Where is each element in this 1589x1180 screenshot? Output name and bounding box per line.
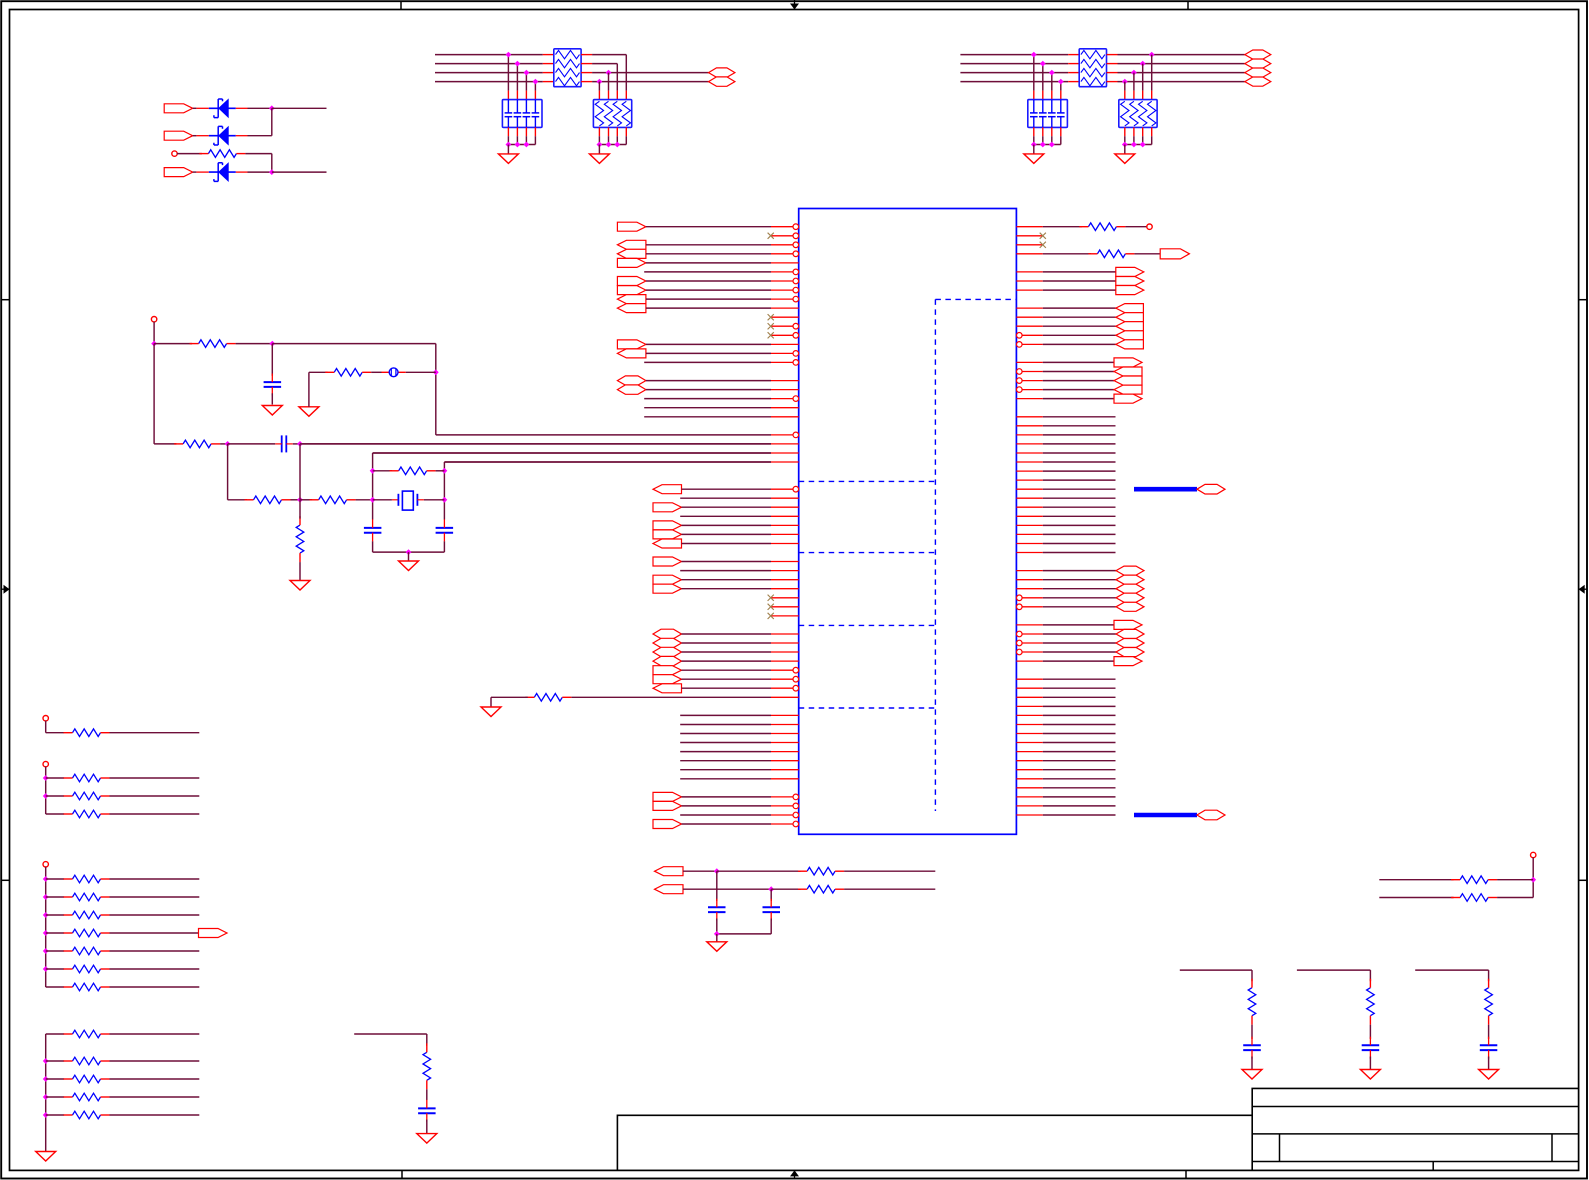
- junction J10: [515, 142, 521, 148]
- wire W183: [683, 888, 771, 890]
- pin R43 of U1: [1017, 604, 1043, 610]
- junction J24: [1040, 142, 1046, 148]
- wire net52b: [491, 696, 528, 698]
- pin L8 of U1: [771, 287, 799, 293]
- no-connect X7: [768, 613, 774, 619]
- wire W47: [680, 778, 771, 780]
- wire W57: [1043, 280, 1116, 282]
- port P57 IN1: [164, 104, 193, 113]
- wire W27: [682, 533, 772, 535]
- ground G1: [481, 707, 501, 717]
- port P60: [709, 68, 735, 77]
- pin R41 of U1: [1016, 588, 1042, 590]
- pin L21 of U1: [771, 407, 799, 409]
- pin R56 of U1: [1016, 724, 1042, 726]
- wire W77: [1043, 488, 1116, 490]
- no-connect X6: [768, 604, 774, 610]
- port P15: [653, 521, 682, 530]
- wire W95: [1043, 678, 1116, 680]
- port P32: [1116, 267, 1144, 276]
- pin L11 of U1: [771, 316, 799, 318]
- ground G6: [262, 406, 282, 416]
- wire W178: [110, 1096, 200, 1098]
- wire W66: [1043, 380, 1114, 382]
- junction J22: [1122, 79, 1128, 85]
- wire c stem2: [271, 393, 273, 404]
- junction J11: [524, 142, 530, 148]
- wire W54: [1043, 253, 1091, 255]
- wire W151: [46, 777, 64, 779]
- port P11: [617, 376, 646, 385]
- resistor R2: [1079, 223, 1125, 231]
- wire W184: [771, 888, 800, 890]
- wire W171: [46, 1033, 64, 1035]
- wire W169: [46, 986, 64, 988]
- wire W83: [1043, 543, 1116, 545]
- resistor R16: [64, 729, 110, 737]
- bus net B2: [1134, 813, 1197, 818]
- IC U1 internal dashed divider a: [799, 480, 936, 482]
- port P62: [1245, 50, 1271, 59]
- pin R1 of U1: [1016, 226, 1042, 228]
- wire W98: [1043, 705, 1116, 707]
- junction J39: [406, 549, 412, 555]
- wire W133: [1118, 72, 1245, 74]
- zone divider bottom left: [401, 1170, 403, 1178]
- wire W16: [644, 407, 771, 409]
- capacitor network CN2: [1028, 100, 1068, 128]
- wire W135: [154, 343, 192, 345]
- pin R4 of U1: [1016, 253, 1042, 255]
- port P47: [1116, 584, 1144, 593]
- pin L49 of U1: [771, 660, 799, 662]
- wire W89: [1043, 606, 1116, 608]
- wire W94: [1043, 660, 1114, 662]
- port P37: [1116, 322, 1144, 331]
- wire cap dn: [507, 136, 509, 144]
- ground G13: [1242, 1070, 1262, 1080]
- wire W7: [646, 289, 771, 291]
- wire W149: [46, 732, 64, 734]
- junction J46: [43, 948, 49, 954]
- wire W125: [592, 72, 708, 74]
- wire res dn: [1151, 136, 1153, 144]
- wire cap tap: [1033, 55, 1035, 91]
- resistor R12: [245, 496, 291, 504]
- wire W152: [110, 777, 200, 779]
- wire W70: [1043, 425, 1116, 427]
- pin R10 of U1: [1016, 307, 1042, 309]
- wire W159: [46, 896, 64, 898]
- wire W58: [1043, 289, 1116, 291]
- title block bottom-centre box: [617, 1115, 1252, 1170]
- wire W39: [682, 687, 772, 689]
- wire rc v2: [1488, 1025, 1490, 1039]
- port P64: [1245, 68, 1271, 77]
- zone divider left lower: [1, 879, 9, 881]
- wire W123: [592, 54, 626, 56]
- wire W96: [1043, 687, 1116, 689]
- wire W10: [646, 343, 771, 345]
- wire res dn: [1124, 136, 1126, 144]
- wire rc v3: [1369, 1057, 1371, 1070]
- wire rc v1: [1369, 970, 1371, 981]
- wire W35: [682, 651, 772, 653]
- wire rc wire: [1180, 969, 1252, 971]
- wire W64: [1043, 361, 1114, 363]
- wire cap tap: [1042, 64, 1044, 91]
- wire tie 3-4: [271, 154, 273, 173]
- wire capA stem2: [716, 919, 718, 934]
- wire W6: [646, 280, 771, 282]
- wire W105: [1043, 769, 1116, 771]
- wire W84: [1043, 552, 1116, 554]
- wire W114: [248, 135, 272, 137]
- junction J16: [1040, 61, 1046, 67]
- crystal Y1: [392, 491, 424, 510]
- wire rc top: [354, 1033, 427, 1035]
- resistor R21: [64, 893, 110, 901]
- junction J40: [43, 775, 49, 781]
- resistor R26: [64, 983, 110, 991]
- junction J4: [515, 61, 521, 67]
- pin L2 of U1: [771, 233, 799, 239]
- wire W30: [680, 570, 771, 572]
- resistor R18: [64, 792, 110, 800]
- IC U1 internal dashed block vertical: [934, 299, 936, 811]
- wire W3: [646, 253, 771, 255]
- wire xtal right vert a: [443, 462, 445, 520]
- port P43: [1114, 385, 1142, 394]
- wire W179: [46, 1114, 64, 1116]
- resistor R1: [525, 694, 571, 702]
- resistor R11: [174, 440, 220, 448]
- pin R3 of U1: [1016, 244, 1042, 246]
- capacitor C3 C pll: [264, 374, 282, 396]
- junction J19: [1149, 52, 1155, 58]
- pin R51 of U1: [1016, 678, 1042, 680]
- ground G8: [290, 581, 310, 591]
- port P35: [1116, 304, 1144, 313]
- wire g4 stem: [45, 1034, 47, 1152]
- junction J49: [43, 1076, 49, 1082]
- pin L61 of U1: [771, 769, 799, 771]
- diode D2 D2: [209, 126, 236, 145]
- no-connect X3: [768, 323, 774, 329]
- pin R24 of U1: [1016, 434, 1042, 436]
- junction J21: [1131, 70, 1137, 76]
- wire W67: [1043, 389, 1114, 391]
- port P51: [1116, 629, 1144, 638]
- junction J25: [1049, 142, 1055, 148]
- wire W59: [1043, 307, 1116, 309]
- wire cap dn: [1042, 136, 1044, 144]
- pin L38 of U1: [771, 561, 799, 563]
- node O3 (open pin): [151, 317, 156, 322]
- ground G2: [498, 154, 518, 164]
- wire res gnd stem: [1124, 145, 1126, 154]
- port P1: [617, 222, 646, 231]
- junction J47: [43, 966, 49, 972]
- wire W24: [682, 506, 772, 508]
- center mark top: [790, 0, 799, 10]
- junction J14: [614, 142, 620, 148]
- wire W48: [682, 796, 772, 798]
- wire W22: [682, 488, 772, 490]
- port P13: [653, 485, 682, 494]
- wire W108: [1043, 796, 1116, 798]
- junction J17: [1049, 70, 1055, 76]
- wire W2: [646, 244, 771, 246]
- wire W56: [1043, 271, 1116, 273]
- wire rc vert: [426, 1034, 428, 1046]
- pin L32 of U1: [771, 506, 799, 508]
- junction J52: [714, 868, 720, 874]
- wire res tap: [1124, 82, 1126, 91]
- wire W51: [682, 823, 772, 825]
- wire W177: [46, 1096, 64, 1098]
- resistor R36: [1367, 979, 1375, 1025]
- wire W182: [717, 870, 801, 872]
- pin L33 of U1: [771, 515, 799, 517]
- zone divider top right: [1187, 1, 1189, 9]
- junction J55: [1530, 877, 1536, 883]
- port P10: [617, 349, 646, 358]
- wire res bus: [599, 144, 626, 146]
- pin L60 of U1: [771, 760, 799, 762]
- pin R37 of U1: [1016, 552, 1042, 554]
- resistor R38: [1451, 876, 1497, 884]
- pin L55 of U1: [771, 714, 799, 716]
- wire res dn: [598, 136, 600, 144]
- pin R14 of U1: [1017, 342, 1043, 348]
- wire W138: [371, 371, 381, 373]
- pin L58 of U1: [771, 742, 799, 744]
- wire W60: [1043, 316, 1116, 318]
- port P38: [1116, 331, 1144, 340]
- wire W157: [46, 878, 64, 880]
- wire W119: [435, 54, 543, 56]
- pin L47 of U1: [771, 642, 799, 644]
- wire W97: [1043, 696, 1116, 698]
- pin L48 of U1: [771, 651, 799, 653]
- resistor R34: [798, 885, 844, 893]
- wire W86: [1043, 579, 1116, 581]
- pin L27 of U1: [771, 461, 799, 463]
- resistor R15 R fb: [390, 467, 436, 475]
- wire W44: [680, 751, 771, 753]
- pin R62 of U1: [1016, 778, 1042, 780]
- wire cap gnd stem: [1033, 145, 1035, 154]
- wire W164: [110, 932, 199, 934]
- node O6 (open pin): [43, 862, 48, 867]
- junction J36: [442, 468, 448, 474]
- resistor R20: [64, 875, 110, 883]
- pin L13 of U1: [771, 333, 799, 339]
- pin L16 of U1: [771, 360, 799, 366]
- title block cell divider left: [1279, 1134, 1281, 1162]
- port P34: [1116, 286, 1144, 295]
- wire xtal out a: [373, 452, 771, 454]
- wire rv stem2: [299, 562, 301, 580]
- junction J8: [597, 79, 603, 85]
- wire W37: [682, 669, 772, 671]
- pin R52 of U1: [1016, 687, 1042, 689]
- wire W132: [1118, 63, 1245, 65]
- wire cap gnd stem: [507, 145, 509, 154]
- resistor R29: [64, 1075, 110, 1083]
- wire W168: [110, 968, 200, 970]
- pin L66 of U1: [771, 812, 799, 818]
- pin R55 of U1: [1016, 714, 1042, 716]
- wire cap tap: [507, 55, 509, 91]
- title block cell divider right: [1551, 1134, 1553, 1162]
- wire W130: [960, 81, 1068, 83]
- center mark left: [1, 585, 9, 594]
- pin L20 of U1: [771, 396, 799, 402]
- resistor R30: [64, 1093, 110, 1101]
- wire W180: [110, 1114, 200, 1116]
- diode D3 D3: [209, 163, 236, 182]
- wire outB right: [844, 888, 935, 890]
- port P27: [653, 684, 682, 693]
- wire W80: [1043, 515, 1116, 517]
- ground G9: [399, 561, 419, 571]
- wire W36: [682, 660, 772, 662]
- pin R11 of U1: [1016, 316, 1042, 318]
- wire W65: [1043, 371, 1114, 373]
- wire cap dn: [1060, 136, 1062, 144]
- junction J30: [269, 341, 275, 347]
- pin L53 of U1: [771, 696, 799, 698]
- capacitor C8 C a: [708, 899, 726, 921]
- wire W143: [228, 499, 247, 501]
- wire res bus: [1125, 144, 1152, 146]
- wire W124: [592, 63, 617, 65]
- port P9: [617, 340, 646, 349]
- pin L40 of U1: [771, 579, 799, 581]
- wire W11: [646, 352, 771, 354]
- port P36: [1116, 313, 1144, 322]
- wire W19: [300, 443, 771, 445]
- wire W106: [1043, 778, 1116, 780]
- wire W122: [435, 81, 543, 83]
- pin L9 of U1: [771, 296, 799, 302]
- wire rc v2: [1251, 1025, 1253, 1039]
- pin R30 of U1: [1016, 488, 1042, 490]
- port P3: [617, 249, 646, 258]
- no-connect X8: [1040, 233, 1046, 239]
- wire W50: [680, 814, 771, 816]
- wire W29: [682, 561, 772, 563]
- wire W12: [644, 361, 771, 363]
- wire W129: [960, 72, 1068, 74]
- wire W126: [592, 81, 708, 83]
- junction J48: [43, 1058, 49, 1064]
- wire res dn: [1142, 136, 1144, 144]
- title block row line 3: [1252, 1161, 1578, 1163]
- title block cell divider bottom: [1432, 1162, 1434, 1171]
- port P61: [709, 77, 735, 86]
- port P18: [653, 557, 682, 566]
- junction J33: [297, 441, 303, 447]
- wire W40: [680, 714, 771, 716]
- resistor R33: [798, 867, 844, 875]
- pin R49 of U1: [1016, 660, 1042, 662]
- wire W88: [1043, 597, 1116, 599]
- port P59 IN3: [164, 168, 193, 177]
- port P66: [199, 929, 228, 938]
- junction J27: [1131, 142, 1137, 148]
- port P45: [1116, 566, 1144, 575]
- pin L4 of U1: [771, 251, 799, 257]
- wire W46: [680, 769, 771, 771]
- wire W15: [644, 398, 771, 400]
- wire c left: [228, 443, 276, 445]
- bus net B1: [1134, 487, 1197, 492]
- resistor R23: [64, 929, 110, 937]
- wire rc v2: [1369, 1025, 1371, 1039]
- wire g2 stem: [45, 767, 47, 815]
- pin R6 of U1: [1016, 271, 1042, 273]
- port P14: [653, 503, 682, 512]
- junction J54: [714, 931, 720, 937]
- wire W91: [1043, 633, 1116, 635]
- IC U1 internal dashed divider b: [799, 552, 936, 554]
- junction J6: [533, 79, 539, 85]
- wire cap dn: [516, 136, 518, 144]
- pin L24 of U1: [771, 432, 799, 438]
- wire xtal out b: [444, 461, 771, 463]
- resistor R39: [1451, 894, 1497, 902]
- port P21: [653, 629, 682, 639]
- node O1 (open pin): [1147, 224, 1152, 229]
- wire W127: [960, 54, 1068, 56]
- port P44: [1114, 394, 1142, 403]
- wire W62: [1043, 334, 1116, 336]
- pin R25 of U1: [1016, 443, 1042, 445]
- wire W167: [46, 968, 64, 970]
- wire W55: [1134, 253, 1160, 255]
- resistor R17: [64, 774, 110, 782]
- title block row line 2: [1252, 1133, 1578, 1135]
- port P25: [653, 666, 682, 675]
- wire cap bus: [1034, 144, 1061, 146]
- wire W53: [1125, 226, 1147, 228]
- wire outA right: [844, 870, 935, 872]
- port P42: [1114, 376, 1142, 385]
- junction J2: [269, 169, 275, 175]
- wire cap bus: [508, 144, 535, 146]
- resistor R13: [310, 496, 356, 504]
- pin L62 of U1: [771, 778, 799, 780]
- wire pair wire: [1379, 897, 1453, 899]
- pin R31 of U1: [1016, 497, 1042, 499]
- capacitor C10 C rc: [1243, 1037, 1261, 1059]
- wire capB stem: [770, 889, 772, 901]
- pin R45 of U1: [1016, 624, 1042, 626]
- junction J29: [151, 341, 157, 347]
- port P24: [653, 656, 682, 665]
- center mark bottom: [790, 1170, 799, 1179]
- ground G3: [589, 154, 609, 164]
- wire res gnd stem: [598, 145, 600, 154]
- wire pll stem: [153, 322, 155, 344]
- pin R65 of U1: [1016, 805, 1042, 807]
- pin L59 of U1: [771, 751, 799, 753]
- pin R23 of U1: [1016, 425, 1042, 427]
- wire W120: [435, 63, 543, 65]
